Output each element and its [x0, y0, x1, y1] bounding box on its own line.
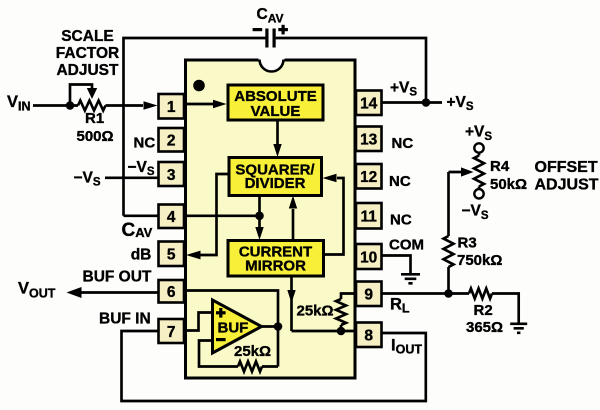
wire pin4 node and squarer bottom to current mirror arrow [184, 195, 260, 227]
svg-text:5: 5 [167, 247, 176, 264]
pin 11 box [356, 203, 382, 229]
svg-text:25kΩ: 25kΩ [234, 343, 271, 360]
capacitor Cav plates [267, 29, 274, 48]
svg-text:R4: R4 [490, 158, 510, 175]
wire minus Vs to pin3 [105, 176, 159, 179]
svg-text:ADJUST: ADJUST [56, 62, 119, 79]
pin 2 box [159, 128, 185, 152]
wire current mirror right feedback to squarer arrow left [323, 178, 344, 255]
resistor 25k feedback [238, 362, 262, 372]
svg-text:COM: COM [389, 236, 424, 253]
wire pin10 COM to ground [382, 256, 411, 274]
block current mirror [228, 241, 324, 277]
pin 9 box [356, 282, 382, 307]
resistor R3 zigzag [444, 236, 454, 267]
resistor R1 zigzag [78, 101, 105, 111]
svg-text:14: 14 [360, 96, 378, 113]
pin 3 box [159, 162, 185, 186]
svg-text:12: 12 [360, 169, 377, 186]
pin 5 box [159, 242, 185, 267]
pin 1 box [159, 94, 185, 119]
label scale factor adjust [56, 28, 119, 79]
svg-text:BUF IN: BUF IN [99, 311, 151, 328]
wire R4 wiper and R3 vertical [449, 172, 463, 294]
svg-text:SCALE: SCALE [61, 28, 114, 45]
svg-text:50kΩ: 50kΩ [490, 176, 527, 193]
svg-text:NC: NC [390, 211, 412, 228]
wire buf apex to node [259, 325, 278, 328]
wire pin1 to absolute value block [184, 103, 214, 106]
wire Cav right to +Vs junction [276, 38, 426, 101]
node RL junction dot [444, 289, 453, 298]
node junction dot pin4 squarer [255, 212, 264, 221]
potentiometer R1 wiper bracket arrow [70, 85, 92, 105]
svg-text:BUF: BUF [218, 320, 249, 337]
node +Vs junction dot [422, 98, 431, 107]
wire current mirror bottom arrow down to iout rail [290, 276, 293, 331]
pin 1 index dot [193, 80, 205, 92]
svg-text:6: 6 [167, 284, 176, 301]
node buf output dot [274, 322, 283, 331]
pin 8 box [356, 323, 382, 348]
wire pin7 to buf plus input [184, 313, 212, 331]
wire pin6 to Vout arrow [81, 291, 159, 294]
pin 6 box [159, 280, 185, 303]
svg-text:1: 1 [167, 99, 176, 116]
potentiometer R4 [478, 153, 481, 190]
pin 14 box [356, 91, 382, 116]
node Vin junction dot [66, 101, 75, 110]
svg-text:NC: NC [389, 173, 411, 190]
svg-text:750kΩ: 750kΩ [457, 252, 502, 269]
pin 12 box [356, 164, 382, 189]
pin 10 box [356, 244, 382, 269]
svg-text:DIVIDER: DIVIDER [245, 175, 306, 192]
wire iout rail to pin8 [292, 330, 357, 333]
svg-text:2: 2 [167, 133, 176, 150]
svg-text:4: 4 [167, 209, 176, 226]
wire absolute value to squarer arrow down [276, 120, 279, 144]
wire R2 to ground [492, 294, 519, 323]
svg-text:OFFSET: OFFSET [535, 159, 598, 176]
svg-text:dB: dB [131, 246, 152, 263]
resistor 25k internal pin9 to rail [341, 294, 356, 300]
svg-text:ADJUST: ADJUST [535, 177, 599, 194]
op-amp BUF triangle [213, 300, 262, 353]
IC body DIP-14 outline [186, 60, 356, 378]
svg-text:10: 10 [360, 249, 377, 266]
block squarer divider [229, 158, 322, 196]
svg-text:500Ω: 500Ω [77, 128, 114, 145]
svg-text:13: 13 [360, 132, 378, 149]
wire R1 to pin1 arrow [106, 104, 144, 107]
wire buf minus input feedback [199, 341, 278, 367]
resistor R2 zigzag [469, 289, 492, 299]
svg-text:R3: R3 [458, 234, 477, 251]
wire pin7 loop bottom to pin8 [122, 331, 426, 401]
node junction dot 25k bottom [337, 327, 346, 336]
svg-text:MIRROR: MIRROR [245, 257, 306, 274]
svg-text:FACTOR: FACTOR [56, 45, 119, 62]
svg-text:9: 9 [364, 287, 373, 304]
svg-text:R2: R2 [474, 302, 493, 319]
svg-text:BUF OUT: BUF OUT [83, 268, 152, 285]
svg-text:7: 7 [167, 324, 176, 341]
svg-text:VALUE: VALUE [251, 103, 301, 120]
wire pin6 to buf output node [184, 291, 278, 367]
svg-text:R1: R1 [85, 110, 104, 127]
pin 4 box [159, 205, 185, 229]
svg-text:11: 11 [361, 209, 378, 226]
block absolute value [228, 85, 323, 120]
wire squarer to pin5 dB arrow left [200, 174, 230, 255]
svg-text:NC: NC [134, 135, 156, 152]
svg-text:NC: NC [392, 135, 414, 152]
svg-text:8: 8 [364, 328, 373, 345]
wire Cav rail left vertical to pin4 [124, 38, 266, 216]
pin 13 box [356, 127, 382, 152]
svg-text:3: 3 [167, 167, 176, 184]
svg-text:365Ω: 365Ω [466, 319, 503, 336]
wire Vin input [33, 104, 78, 107]
ground COM [401, 274, 420, 283]
wire pin14 to +Vs [382, 101, 443, 104]
wire pin9 RL rail [382, 292, 470, 295]
wire current mirror to squarer arrow up [292, 209, 295, 241]
IC notch [259, 58, 285, 63]
ground R2 [510, 324, 527, 333]
pin 7 box [159, 319, 185, 343]
svg-text:25kΩ: 25kΩ [297, 303, 334, 320]
